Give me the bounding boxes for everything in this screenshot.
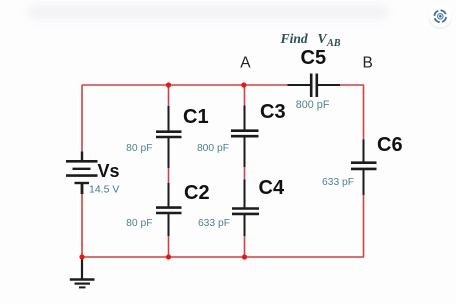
svg-text:800 pF: 800 pF [197, 143, 229, 154]
svg-text:B: B [363, 55, 373, 72]
wire left vertical upper (battery + to top) [81, 85, 83, 152]
capacitor C2 [160, 207, 177, 214]
svg-text:80 pF: 80 pF [126, 143, 152, 154]
wire bottom rail [82, 256, 364, 258]
svg-text:C3: C3 [260, 101, 286, 123]
svg-text:633 pF: 633 pF [322, 177, 354, 188]
ground [70, 259, 95, 287]
svg-text:Vs: Vs [98, 161, 120, 181]
node junction dot bottom C4 [242, 254, 247, 259]
svg-text:80 pF: 80 pF [126, 218, 152, 229]
svg-text:A: A [240, 55, 251, 72]
wire node A to C5 [244, 84, 364, 86]
capacitor C5 [311, 78, 318, 92]
icon screenshot-search button [429, 5, 452, 29]
wire right vertical (B to bottom rail) [363, 85, 365, 257]
blurred screenshot toolbar remnant [28, 6, 388, 18]
wire left vertical lower (battery - to bottom rail) [81, 193, 83, 257]
svg-text:14.5 V: 14.5 V [89, 184, 119, 196]
svg-text:800 pF: 800 pF [296, 99, 330, 111]
svg-text:C1: C1 [183, 106, 209, 128]
node junction dot bottom ground [79, 254, 84, 259]
node junction dot top C1 [166, 82, 171, 87]
wire C1 branch [168, 85, 170, 257]
svg-text:C6: C6 [377, 134, 403, 156]
svg-text:C5: C5 [301, 47, 327, 69]
capacitor C6 [355, 162, 372, 170]
battery Vs [66, 152, 98, 195]
node A junction dot [241, 82, 246, 87]
svg-text:C2: C2 [184, 182, 210, 204]
capacitor C4 [236, 208, 253, 215]
capacitor C1 [160, 131, 177, 138]
wire top rail (node A rail) [82, 84, 244, 86]
capacitor C3 [236, 130, 253, 137]
svg-text:C4: C4 [259, 177, 285, 199]
svg-text:633 pF: 633 pF [198, 218, 230, 229]
wire C3 branch [244, 85, 246, 257]
node junction dot bottom C2 [166, 254, 171, 259]
